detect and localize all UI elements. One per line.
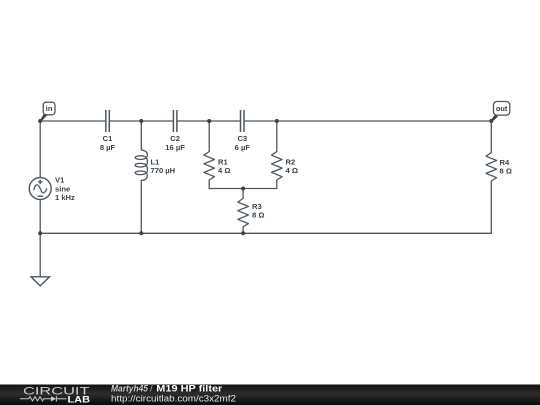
svg-text:R4: R4 — [500, 158, 510, 167]
wire ground stem — [39, 233, 41, 276]
svg-text:R2: R2 — [286, 157, 296, 166]
wire top rail: C3 to out node — [245, 120, 491, 122]
svg-text:1 kHz: 1 kHz — [55, 193, 75, 202]
svg-text:4 Ω: 4 Ω — [286, 166, 298, 175]
svg-text:V1: V1 — [55, 176, 65, 185]
wire R4 branch upper — [490, 121, 492, 153]
wire R2 branch upper — [276, 121, 278, 152]
resistor R2 — [272, 152, 283, 181]
svg-text:/: / — [150, 384, 153, 394]
voltage source V1 — [29, 178, 51, 200]
junction dot in node — [38, 119, 42, 123]
wire top rail: C1 to C2 — [110, 120, 173, 122]
svg-text:R1: R1 — [218, 157, 228, 166]
wire top rail: C2 to C3 — [178, 120, 240, 122]
wire R3 bottom lead — [242, 227, 244, 233]
capacitor C3 — [241, 110, 245, 132]
svg-text:8 µF: 8 µF — [100, 143, 116, 152]
svg-text:6 µF: 6 µF — [235, 143, 251, 152]
svg-text:C1: C1 — [103, 134, 113, 143]
svg-text:http://circuitlab.com/c3x2mf2: http://circuitlab.com/c3x2mf2 — [111, 394, 236, 404]
logo wire — [20, 396, 67, 401]
wire top rail: in node to C1 — [40, 120, 105, 122]
junction dot out node — [489, 119, 493, 123]
junction dot L1 top — [139, 119, 143, 123]
wire V1 branch upper — [39, 121, 41, 178]
svg-text:R3: R3 — [252, 202, 262, 211]
wire L1 branch upper — [140, 121, 142, 150]
svg-text:sine: sine — [55, 184, 70, 193]
wire V1 branch lower — [39, 200, 41, 234]
logo diode — [51, 396, 56, 401]
svg-text:770 µH: 770 µH — [151, 166, 176, 175]
junction dot L1 bottom — [139, 231, 143, 235]
capacitor C2 — [173, 110, 177, 132]
wire R1 branch upper — [208, 121, 210, 152]
svg-text:M19 HP filter: M19 HP filter — [156, 384, 222, 394]
node out flag — [491, 102, 510, 122]
svg-text:16 µF: 16 µF — [165, 143, 185, 152]
svg-text:Martyh45: Martyh45 — [111, 384, 149, 394]
wire R2 branch lower — [276, 180, 278, 189]
svg-text:LAB: LAB — [68, 394, 91, 405]
junction dot R3 bottom — [241, 231, 245, 235]
inductor L1 — [135, 150, 147, 180]
junction dot R3 top — [241, 187, 245, 191]
svg-text:C2: C2 — [170, 134, 180, 143]
svg-text:in: in — [46, 104, 53, 113]
wire R3 top lead — [242, 189, 244, 199]
wire L1 branch lower — [140, 180, 142, 233]
wire R4 branch lower — [490, 181, 492, 233]
svg-text:L1: L1 — [151, 157, 161, 166]
resistor R3 — [238, 198, 249, 227]
node in flag — [40, 102, 55, 121]
junction dot R2 top — [275, 119, 279, 123]
svg-text:8 Ω: 8 Ω — [500, 167, 512, 176]
wire R1 branch lower — [208, 180, 210, 189]
ground — [31, 277, 50, 286]
svg-text:out: out — [496, 104, 508, 113]
svg-text:8 Ω: 8 Ω — [252, 211, 264, 220]
wire R1-R2 bottom connector — [209, 188, 277, 190]
svg-text:4 Ω: 4 Ω — [218, 166, 230, 175]
resistor R4 — [486, 153, 497, 182]
resistor R1 — [204, 152, 215, 181]
wire bottom rail — [40, 232, 491, 234]
junction dot R1 top — [207, 119, 211, 123]
capacitor C1 — [106, 110, 110, 132]
junction dot ground node — [38, 231, 42, 235]
svg-text:C3: C3 — [237, 134, 247, 143]
